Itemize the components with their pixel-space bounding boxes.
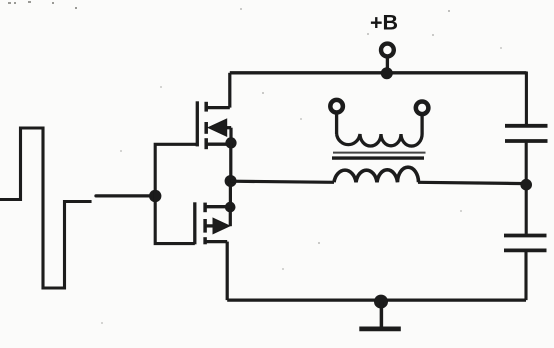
wire: center node down to Q2 drain: [229, 181, 232, 207]
wire: Q2 source down to ground rail: [226, 242, 229, 301]
wire: bottom rail: [227, 298, 526, 301]
wire: lower winding to right rail: [418, 182, 526, 183]
Q2 channel segment (drain): [203, 203, 207, 213]
junction dot Q2 drain: [225, 202, 236, 213]
capacitor C2 (lower right): [504, 236, 547, 251]
Q1 body arrow (points left): [208, 119, 227, 136]
node C (right rail junction dot): [520, 179, 532, 191]
C1 bottom plate: [505, 139, 548, 143]
Q2 body stub: [205, 224, 215, 227]
wire: right rail C2 to bottom rail: [524, 252, 527, 300]
junction dot Q1 source: [225, 137, 236, 148]
wire: +B terminal to rail: [386, 57, 389, 69]
Q1 drain stub: [206, 106, 230, 109]
ground: [359, 302, 401, 329]
T1 right terminal lead: [420, 114, 423, 134]
node A (gate junction dot): [149, 190, 161, 202]
wire: gate riser up to Q1 gate: [155, 144, 197, 196]
Q2 channel segment (body): [203, 219, 207, 233]
Q1 gate bar: [196, 101, 199, 146]
transformer T1 upper winding: [337, 113, 423, 146]
wire: right rail upper segment to C1: [525, 72, 528, 125]
wire: Q2 body tie vertical: [229, 207, 232, 226]
wire: center node to lower winding: [231, 181, 334, 182]
wire: Q1 drain up to +B rail: [228, 73, 231, 108]
junction dot +B on rail: [381, 67, 393, 79]
Q1 channel segment (body): [204, 122, 208, 134]
ground bar: [359, 327, 401, 332]
wire: Q1 body/source tie vertical: [229, 128, 232, 143]
Q1 channel segment (source): [204, 138, 208, 149]
transformer T1 upper winding terminal (right circle): [416, 102, 429, 115]
ground junction dot: [374, 295, 388, 309]
C2 top plate: [504, 234, 547, 238]
Q2 body arrow (points right): [213, 218, 230, 234]
ground stem: [380, 302, 384, 327]
svg-text:+B: +B: [370, 11, 398, 35]
input square-wave signal: [0, 128, 90, 288]
wire: input line to gate node: [96, 194, 155, 197]
+B terminal circle: [381, 44, 394, 57]
transformer T1 lower winding: [334, 167, 419, 182]
C2 bottom plate: [504, 248, 547, 252]
wire: right rail node C to C2: [525, 184, 528, 234]
Q2 channel segment (source): [203, 237, 207, 244]
Q1 source stub: [206, 143, 231, 146]
wire: right rail C1 to node C: [525, 143, 528, 184]
power terminal +B: [370, 11, 398, 69]
wire: top +B rail: [230, 71, 527, 74]
transformer T1 upper winding terminal (left circle): [330, 100, 343, 113]
Q1 channel segment (drain): [204, 102, 208, 112]
Q2 drain stub: [205, 205, 230, 208]
transistor Q1 (upper MOSFET, arrow pointing left): [197, 101, 231, 149]
transformer T1 core: [333, 152, 426, 154]
Q2 gate bar: [193, 202, 196, 244]
T1 primary coil loops: [337, 134, 423, 146]
transistor Q2 (lower MOSFET, arrow pointing right): [195, 202, 230, 244]
wire: Q1 source down to center node: [229, 143, 232, 181]
Q1 body stub: [226, 126, 231, 129]
capacitor C1 (upper right): [505, 126, 548, 141]
Q2 source stub: [205, 240, 227, 243]
node B (center output node dot): [225, 175, 237, 187]
wire: gate drop down to Q2 gate: [155, 196, 195, 244]
T1 left terminal lead: [335, 113, 338, 134]
C1 top plate: [505, 124, 548, 128]
